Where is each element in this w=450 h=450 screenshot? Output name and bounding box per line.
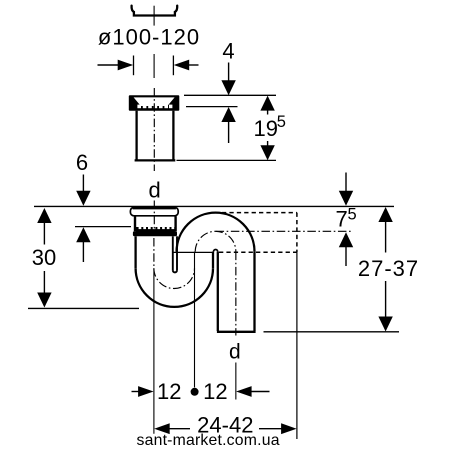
midpoint dot xyxy=(191,388,199,396)
extension line flange top xyxy=(184,94,276,96)
svg-text:4: 4 xyxy=(222,39,234,64)
outlet pipe left wall xyxy=(217,252,219,331)
outlet pipe right wall xyxy=(253,252,255,331)
alternate outlet dashed box bottom xyxy=(219,251,297,253)
dimension 19.5 xyxy=(260,96,274,111)
svg-text:12: 12 xyxy=(203,379,227,404)
dimension 24-42 left arrow xyxy=(154,423,170,434)
svg-text:12: 12 xyxy=(157,379,181,404)
dimension ø100-120 arrows xyxy=(98,64,120,66)
svg-text:5: 5 xyxy=(277,113,286,131)
flange funnel (white inside) xyxy=(134,97,175,106)
drain collar cross-section bracket (top) xyxy=(132,6,178,16)
dimension 4 up arrow xyxy=(221,107,235,122)
alternate outlet dashed box top xyxy=(222,212,297,214)
dimension 7.5 up arrow xyxy=(339,232,353,247)
inlet socket collar bead xyxy=(130,207,178,216)
dimension 30 down arrow xyxy=(43,271,45,293)
alternate outlet centerline horizontal xyxy=(216,230,352,232)
riser centerline xyxy=(194,252,196,388)
trap dome outer arc xyxy=(177,213,255,252)
fitting body walls xyxy=(135,111,137,160)
alternate outlet dashed box right xyxy=(296,213,298,253)
trap riser right wall xyxy=(212,252,214,269)
svg-text:30: 30 xyxy=(32,245,56,270)
dimension 4 down arrow xyxy=(228,63,230,82)
svg-text:ø100-120: ø100-120 xyxy=(98,25,200,50)
trap inlet pipe left wall xyxy=(134,236,136,268)
inlet extension line down xyxy=(153,268,155,434)
dimension 12-12 right arrow xyxy=(236,386,252,397)
svg-text:6: 6 xyxy=(76,150,88,175)
outlet centerline xyxy=(235,252,237,336)
inlet centerline xyxy=(153,238,155,268)
flange seal dashes xyxy=(137,105,172,109)
trap dome inner arc xyxy=(214,250,218,252)
dimension 12-12 left arrow xyxy=(132,391,140,393)
collar bottom band xyxy=(133,231,177,236)
trap partition bottom arc xyxy=(173,270,177,272)
outlet pipe end cap xyxy=(217,331,256,333)
riser junction line xyxy=(173,251,213,253)
svg-text:24-42: 24-42 xyxy=(197,412,253,437)
bracket centerline xyxy=(153,6,155,26)
dimension 6 lower line xyxy=(75,226,131,228)
extension line fitting bottom xyxy=(177,159,277,161)
fitting bottom cap xyxy=(135,159,176,161)
dimension 7.5 down arrow xyxy=(345,173,347,192)
svg-text:d: d xyxy=(148,178,160,203)
wall reference line xyxy=(34,205,394,207)
U-bend centerline arc xyxy=(154,268,195,288)
ø-dimension centerline tick xyxy=(153,54,155,78)
dimension 24-42 right arrow xyxy=(259,428,282,430)
outlet fitting flange (black) xyxy=(129,95,180,111)
trap partition wall left xyxy=(172,236,174,270)
trap partition wall right xyxy=(176,236,178,270)
box extension line down xyxy=(296,252,298,439)
svg-text:5: 5 xyxy=(348,206,357,224)
dome centerline arc xyxy=(195,231,236,251)
dimension 30 up arrow xyxy=(37,208,51,223)
trap U-bend outer arc xyxy=(136,268,213,307)
svg-text:19: 19 xyxy=(254,116,278,141)
outlet extension line xyxy=(235,363,237,400)
collar serration band xyxy=(136,227,175,232)
dimension 27-37 xyxy=(378,207,392,222)
27-37 bottom line xyxy=(264,331,400,333)
fitting centerline xyxy=(153,88,155,171)
svg-text:d: d xyxy=(229,341,241,364)
collar body walls xyxy=(134,216,136,231)
dimension 6 down arrow xyxy=(82,175,84,192)
collar centerline xyxy=(153,201,155,237)
svg-text:7: 7 xyxy=(336,207,348,232)
svg-text:27-37: 27-37 xyxy=(358,256,419,281)
dimension 6 up arrow xyxy=(76,227,90,242)
extension line flange bottom xyxy=(186,106,238,108)
inlet socket collar top rim xyxy=(133,207,176,209)
dimension 30 bottom line xyxy=(28,307,139,309)
